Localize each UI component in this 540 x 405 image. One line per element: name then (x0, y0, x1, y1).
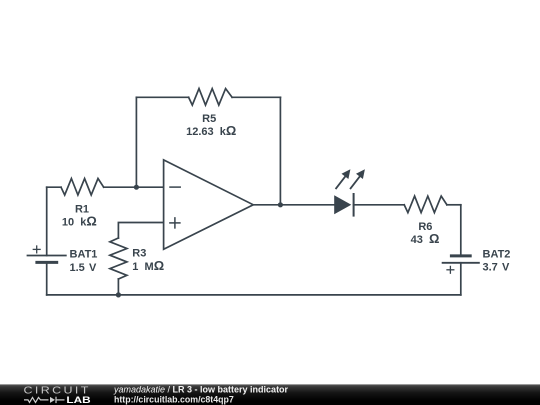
wire top rail left segment (136, 96, 188, 98)
wire R3 bottom lead (117, 279, 119, 295)
battery BAT2 (443, 256, 479, 273)
label R3 value (132, 248, 164, 273)
wire top rail right segment (232, 96, 280, 98)
label R1 value (62, 203, 97, 228)
resistor R3 (110, 238, 127, 279)
node junction R3/bottom rail (116, 292, 121, 297)
LED D1 (334, 169, 365, 215)
svg-text:1.5 V: 1.5 V (70, 262, 98, 274)
svg-text:R5: R5 (202, 113, 216, 125)
node junction output/feedback (278, 202, 283, 207)
svg-text:yamadakatie / LR 3 - low batte: yamadakatie / LR 3 - low battery indicat… (113, 385, 289, 395)
wire bottom rail (47, 294, 461, 296)
svg-text:43 Ω: 43 Ω (411, 231, 440, 246)
wire LED to R6 (354, 204, 405, 206)
battery BAT1 (28, 246, 66, 262)
op-amp U1 (164, 160, 254, 249)
wire BAT2 to bottom rail (460, 263, 462, 295)
label BAT2 value (483, 249, 511, 274)
resistor R6 (404, 196, 447, 213)
wire top-left feedback vertical (135, 97, 137, 187)
wire op-amp output to LED (253, 204, 334, 206)
node junction R1/feedback (134, 185, 139, 190)
wire R1 left lead (47, 186, 61, 188)
wire R3 top lead to op-amp plus input (118, 223, 163, 239)
wire R1 to op-amp minus input (104, 186, 164, 188)
label BAT1 value (70, 249, 98, 274)
footer bar (0, 384, 540, 405)
resistor R1 (61, 179, 104, 196)
svg-text:http://circuitlab.com/c8t4qp7: http://circuitlab.com/c8t4qp7 (114, 394, 234, 404)
svg-text:LAB: LAB (66, 395, 90, 405)
CircuitLab logo resistor-diode squiggle (24, 397, 65, 403)
wire feedback right vertical (279, 97, 281, 205)
wire BAT1 to bottom rail (46, 262, 48, 295)
svg-text:12.63 kΩ: 12.63 kΩ (186, 123, 236, 138)
svg-text:BAT2: BAT2 (483, 249, 511, 261)
resistor R5 (189, 89, 233, 106)
svg-text:BAT1: BAT1 (70, 249, 98, 261)
wire right rail down to BAT2 (460, 205, 462, 256)
wire left rail down to BAT1 (46, 187, 48, 255)
svg-text:1 MΩ: 1 MΩ (132, 258, 164, 273)
svg-text:10 kΩ: 10 kΩ (62, 213, 97, 228)
wire R6 to right rail corner (447, 204, 461, 206)
label R5 value (186, 113, 236, 138)
label R6 value (411, 221, 440, 246)
svg-text:3.7 V: 3.7 V (483, 262, 511, 274)
svg-text:R3: R3 (132, 248, 146, 260)
